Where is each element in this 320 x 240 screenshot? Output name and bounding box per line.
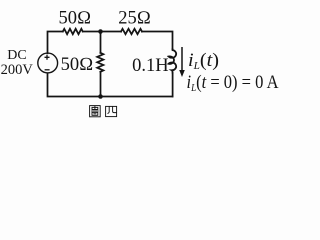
svg-text:50Ω: 50Ω: [58, 9, 91, 29]
resistor R1 50ohm horizontal zigzag: [63, 29, 83, 34]
svg-text:25Ω: 25Ω: [118, 9, 151, 29]
bottom wire: [48, 73, 173, 96]
caption glyph 四 (hand-drawn): [106, 106, 117, 116]
wire inductor to bottom-right corner: [172, 73, 174, 96]
wire middle branch lower: [100, 72, 102, 97]
svg-text:DC: DC: [7, 48, 26, 63]
svg-text:iL(t): iL(t): [188, 50, 219, 72]
wire middle branch upper: [100, 32, 102, 53]
wire between R1 and R2: [83, 31, 121, 33]
wire R2 to top-right corner down to inductor: [142, 32, 173, 50]
current arrow iL: [179, 47, 185, 77]
plus sign inside source: [45, 55, 50, 70]
resistor R2 25ohm horizontal zigzag: [121, 29, 142, 34]
node dot bottom: [98, 94, 103, 99]
svg-text:200V: 200V: [1, 62, 34, 78]
svg-text:0.1H: 0.1H: [132, 56, 169, 76]
wire top-left: source top to R1: [48, 32, 63, 54]
svg-text:iL(t = 0) = 0 A: iL(t = 0) = 0 A: [187, 72, 279, 94]
caption glyph 圖 (hand-drawn): [90, 106, 101, 117]
resistor R3 50ohm vertical zigzag: [97, 53, 103, 72]
svg-text:50Ω: 50Ω: [61, 55, 94, 75]
minus sign inside source: [45, 69, 50, 71]
node dot top: [98, 29, 103, 34]
inductor L1 0.1H coil: [169, 49, 177, 73]
voltage source V1 circle: [38, 53, 58, 73]
